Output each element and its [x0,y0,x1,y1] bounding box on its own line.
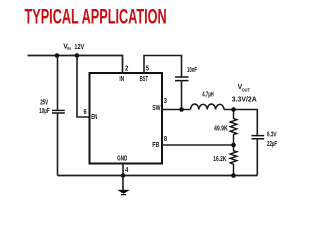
junction dot divider bottom [231,173,236,178]
svg-text:3.3V/2A: 3.3V/2A [232,94,258,103]
resistor R1 49.9K [230,110,237,146]
svg-text:12V: 12V [74,42,84,51]
capacitor C3 22uF plates [252,136,265,139]
wire SW pin 3 to inductor [161,109,191,111]
IC U1 body [90,73,163,164]
junction dot input cap [55,53,60,58]
svg-text:FB: FB [152,142,159,149]
junction dot FB node [231,143,236,148]
svg-text:5: 5 [146,65,149,72]
svg-text:IN: IN [119,76,124,83]
svg-text:EN: EN [91,114,97,121]
capacitor C2 10nF plates [175,77,189,81]
svg-text:IN: IN [67,46,71,51]
svg-text:16.2K: 16.2K [213,156,226,163]
wire EN drop to pin 6 [77,56,89,118]
node VIN label [63,42,84,51]
wire bootstrap cap to SW node [181,81,183,110]
wire input cap top lead [57,56,59,111]
junction dot EN [75,53,80,58]
wire input cap bottom lead [57,113,59,176]
svg-text:6: 6 [84,109,87,116]
svg-text:BST: BST [140,76,149,83]
junction dot VOUT node [231,107,236,112]
wire FB pin 8 to divider [161,144,234,146]
wire bottom ground rail [58,175,258,177]
wire GND pin 4 stub [122,163,124,191]
capacitor C1 value label 25V 10uF [39,99,50,115]
svg-text:4: 4 [125,167,128,174]
svg-text:SW: SW [152,105,161,112]
svg-text:49.9K: 49.9K [214,125,228,132]
wire output cap bottom lead [256,139,258,176]
svg-text:8: 8 [164,136,167,143]
junction dot GND pin [121,173,126,178]
capacitor C1 10uF plates [52,110,65,113]
resistor R2 16.2K [230,145,237,176]
svg-text:2: 2 [125,65,128,72]
svg-text:6.3V: 6.3V [267,131,277,138]
svg-text:OUT: OUT [242,88,250,93]
svg-text:10µF: 10µF [39,108,50,115]
wire VIN rail to IN pin 2 [28,56,123,73]
svg-text:25V: 25V [40,99,48,106]
wire BST pin 5 to bootstrap cap [144,56,182,77]
svg-text:GND: GND [117,155,127,162]
inductor L1 4.7uH [191,104,225,109]
svg-text:TYPICAL APPLICATION: TYPICAL APPLICATION [25,5,167,28]
svg-text:10nF: 10nF [187,67,197,74]
svg-text:3: 3 [164,98,167,105]
ground symbol [117,190,130,195]
svg-text:22µF: 22µF [267,141,278,148]
wire inductor to VOUT node and output cap [224,110,257,136]
junction dot SW node [179,107,184,112]
capacitor C3 value label 6.3V 22uF [267,131,278,148]
node VOUT label [232,82,258,104]
svg-text:4.7µH: 4.7µH [202,92,214,99]
